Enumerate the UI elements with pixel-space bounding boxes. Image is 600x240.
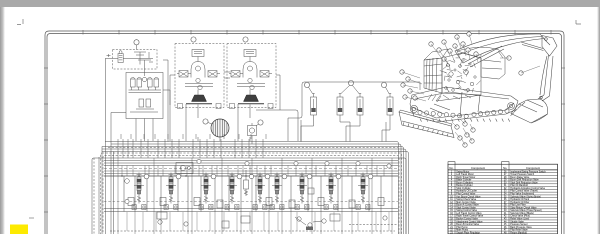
excavator: tracks: [410, 87, 518, 122]
wire: pilot drops into valve bank: [118, 134, 266, 158]
svg-text:Implement/Swing Pressure Switc: Implement/Swing Pressure Switch: [510, 170, 546, 173]
control valve spool: blade: [356, 173, 370, 210]
svg-text:Attachment Control Valve: Attachment Control Valve: [456, 220, 483, 223]
svg-text:Main Pump: Main Pump: [456, 230, 468, 232]
svg-text:Pilot Pump: Pilot Pump: [456, 226, 468, 229]
svg-text:Hydraulic Activation Control V: Hydraulic Activation Control Valve: [510, 187, 545, 190]
control valve spool: stick 1: [199, 173, 213, 210]
excavator: body and machinery: [424, 47, 505, 102]
svg-text:Pilot Line Filter: Pilot Line Filter: [510, 204, 526, 207]
wire: pilot supply drops: [105, 54, 170, 144]
main control valve block boundary: [92, 153, 406, 240]
component table: [448, 162, 558, 235]
control valve spool: attachment: [295, 173, 309, 210]
balloon 10: [348, 80, 353, 85]
balloon 11: [381, 82, 386, 87]
control valve spool: boom 1: [164, 173, 178, 210]
balloon 3: [243, 37, 248, 42]
aux valve mid-bank: [244, 170, 315, 196]
balloon: boom 1 valve: [176, 174, 181, 179]
svg-text:Boom Drift Reduction Valve: Boom Drift Reduction Valve: [510, 179, 539, 182]
svg-text:Right Travel Motor: Right Travel Motor: [456, 176, 475, 179]
svg-text:Swing Motor: Swing Motor: [456, 170, 469, 173]
svg-text:Boom A Control Valve: Boom A Control Valve: [456, 204, 479, 207]
svg-text:Aux Boom Check Valve: Aux Boom Check Valve: [456, 195, 481, 198]
excavator: dozer blade: [399, 104, 454, 138]
balloon: left travel valve: [144, 174, 149, 179]
svg-text:Pilot Control Valve (Travel): Pilot Control Valve (Travel): [510, 190, 538, 193]
svg-text:Main Control Valve: Main Control Valve: [456, 201, 476, 204]
svg-text:Boom B Control Valve: Boom B Control Valve: [456, 223, 479, 226]
main pump module (item 3): [227, 44, 276, 108]
svg-text:Pilot Control Valve: Pilot Control Valve: [456, 192, 476, 195]
svg-text:Swing Check Valve: Swing Check Valve: [456, 199, 477, 201]
control valve spool: swing: [270, 173, 284, 210]
control valve spool: right travel: [324, 173, 338, 210]
excavator: boom arm bucket: [455, 34, 557, 123]
balloon 2: [191, 37, 196, 42]
balloon: stick 1 valve: [211, 174, 216, 179]
pilot gear pump: [211, 119, 229, 137]
svg-text:Travel Pressure Switch: Travel Pressure Switch: [510, 173, 535, 176]
svg-text:Pilot Relief Valve: Pilot Relief Valve: [510, 229, 528, 232]
balloon: blade valve: [368, 174, 373, 179]
svg-text:Blade Cylinder: Blade Cylinder: [456, 179, 471, 182]
control valve spool: stick 2: [253, 173, 267, 210]
balloon 9: [304, 82, 309, 87]
pilot shutoff solenoid valve (item 1): [113, 50, 158, 70]
balloons in bank top row: [125, 159, 391, 226]
pilot control valve group: [126, 60, 163, 119]
svg-text:Check Valve (Pilot): Check Valve (Pilot): [510, 215, 530, 218]
svg-text:Swing Control Valve: Swing Control Valve: [456, 209, 477, 212]
balloon: bucket valve: [237, 174, 242, 179]
pilot relief valve: [248, 123, 257, 141]
svg-text:Component: Component: [471, 166, 485, 170]
svg-text:Swash Plate Regulator: Swash Plate Regulator: [456, 231, 480, 234]
svg-text:Left Travel Motor: Left Travel Motor: [456, 173, 474, 176]
svg-text:Pilot Valve (Implement): Pilot Valve (Implement): [510, 192, 534, 195]
yellow highlight marker: [10, 225, 28, 235]
svg-text:Relief Valve (Line): Relief Valve (Line): [510, 219, 529, 221]
svg-text:Component: Component: [526, 166, 540, 170]
accumulator item 11: [387, 94, 393, 116]
balloon: right travel valve: [336, 174, 341, 179]
svg-text:Right Travel Control Valve: Right Travel Control Valve: [456, 215, 484, 218]
relief/check valve cluster: [125, 163, 384, 231]
balloon 1: [134, 40, 139, 45]
svg-text:Boom Cylinders: Boom Cylinders: [456, 181, 473, 184]
svg-text:Shuttle Valve: Shuttle Valve: [510, 220, 524, 223]
svg-text:No.: No.: [503, 166, 507, 170]
svg-text:Bucket Cylinder: Bucket Cylinder: [456, 184, 473, 187]
balloon: stick 2 valve: [265, 174, 270, 179]
control valve spool: left travel: [132, 173, 146, 210]
svg-text:Slow Return Check Valve: Slow Return Check Valve: [510, 206, 537, 209]
svg-text:Back Pressure Valve: Back Pressure Valve: [510, 226, 532, 229]
main pump module (item 2): [175, 44, 224, 108]
svg-text:Hydraulic Oil Tank: Hydraulic Oil Tank: [510, 198, 530, 201]
balloon pilot pump: [203, 119, 208, 124]
svg-text:No.: No.: [449, 166, 453, 170]
svg-text:Hydraulic Oil Cooler: Hydraulic Oil Cooler: [456, 190, 477, 193]
svg-text:Pilot Oil Manifold: Pilot Oil Manifold: [510, 184, 528, 187]
valve bank internal rails: [104, 158, 398, 234]
balloon: swing valve: [282, 174, 287, 179]
svg-text:Solenoid Valve (Blade): Solenoid Valve (Blade): [510, 213, 534, 215]
svg-text:Left Travel Control Valve: Left Travel Control Valve: [456, 212, 482, 215]
balloon leader lines: [402, 34, 540, 145]
wire: pump output drops: [170, 72, 280, 144]
svg-text:Stick Cylinder: Stick Cylinder: [456, 187, 470, 190]
balloon: attachment valve: [307, 174, 312, 179]
accumulator pair item 10: [337, 94, 343, 116]
svg-text:Hydraulic Oil Filter: Hydraulic Oil Filter: [510, 201, 529, 204]
control valve spool: bucket: [225, 173, 239, 210]
svg-text:Stick Control Valve: Stick Control Valve: [456, 206, 476, 209]
wire: main hose bus: [94, 142, 409, 235]
svg-text:Boom Raise Valve: Boom Raise Valve: [510, 177, 530, 179]
svg-text:Return Manifold: Return Manifold: [510, 231, 527, 234]
svg-text:Solenoid Valve (Swing Brake): Solenoid Valve (Swing Brake): [510, 195, 541, 198]
svg-text:Bucket Control Valve: Bucket Control Valve: [456, 218, 478, 221]
balloon relief: [258, 120, 263, 125]
accumulator item 9: [311, 94, 317, 116]
wire: route to travel motors: [256, 82, 420, 141]
excavator callout balloons: [400, 32, 523, 147]
svg-text:Stick Drift Reduction Valve: Stick Drift Reduction Valve: [510, 181, 538, 184]
svg-text:Solenoid Valve (Travel Speed): Solenoid Valve (Travel Speed): [510, 209, 542, 212]
svg-text:Pressure Sensor: Pressure Sensor: [510, 223, 528, 226]
